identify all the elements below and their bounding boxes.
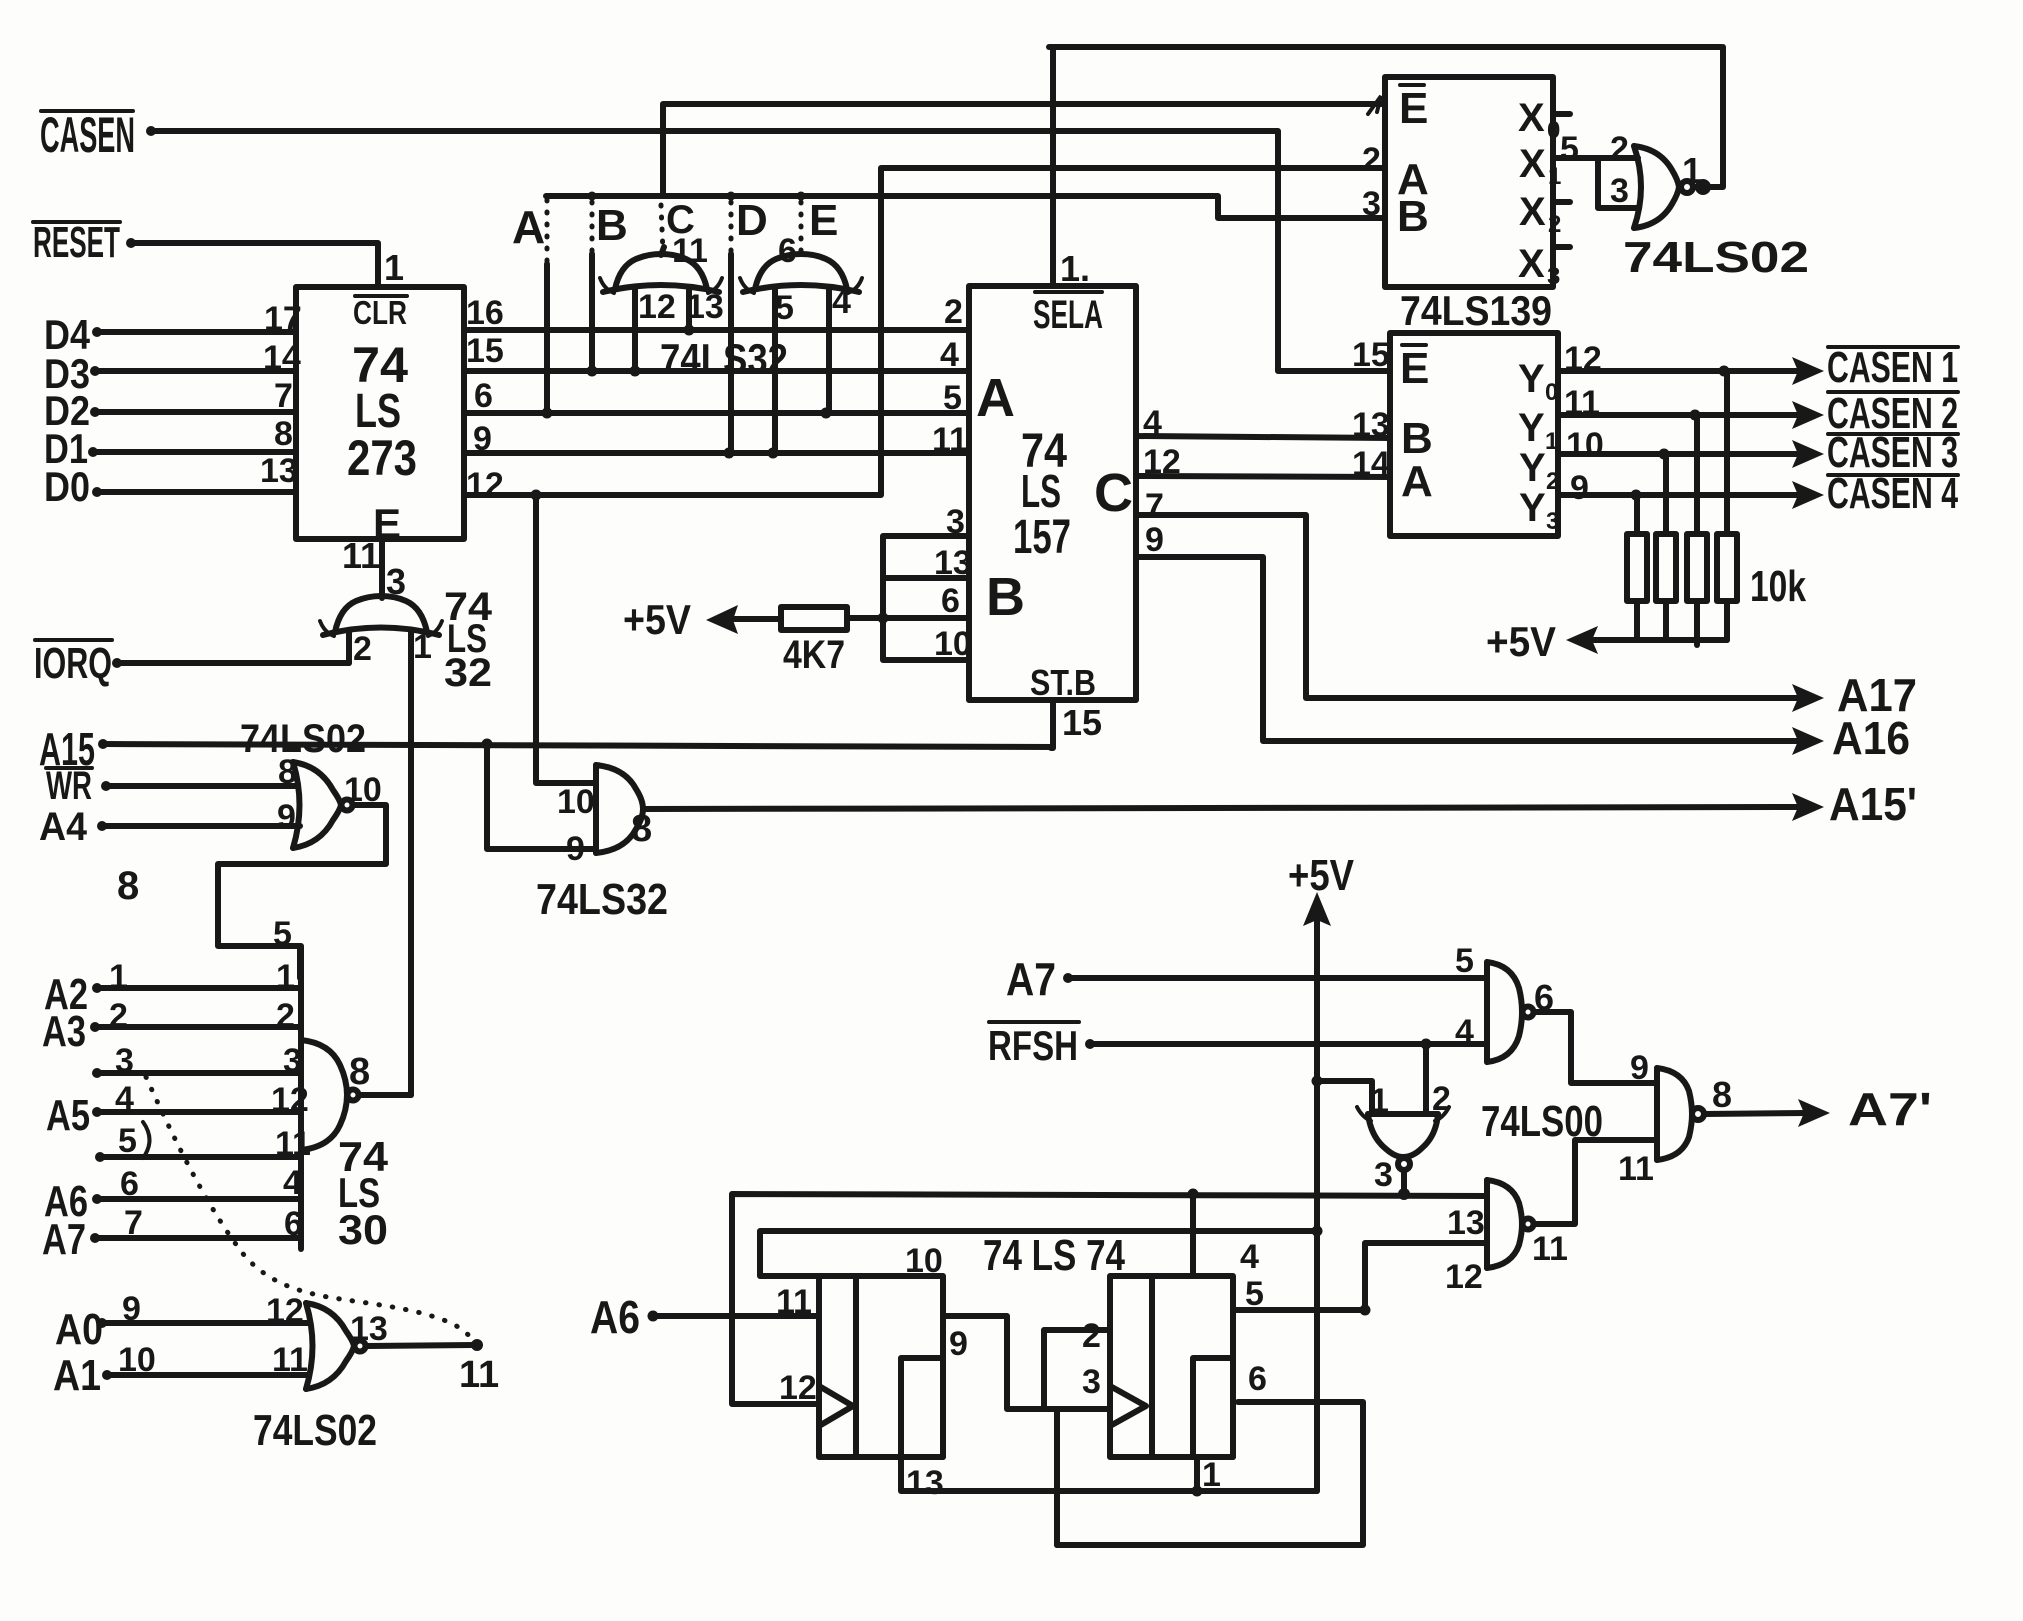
svg-text:5: 5 bbox=[273, 915, 292, 953]
svg-text:32: 32 bbox=[444, 651, 492, 695]
svg-text:8: 8 bbox=[631, 808, 652, 850]
svg-text:14: 14 bbox=[1352, 445, 1390, 483]
svg-text:Y: Y bbox=[1519, 446, 1546, 490]
flip-flop 74LS74 first bbox=[819, 1276, 943, 1457]
svg-text:5: 5 bbox=[943, 379, 962, 417]
wire Q 9 to 74LS157 pin 11 bbox=[464, 420, 969, 459]
svg-text:3: 3 bbox=[283, 1042, 302, 1080]
svg-text:13: 13 bbox=[260, 452, 298, 490]
wire 74LS157 pin12 out to 74LS139 A bbox=[1136, 443, 1390, 483]
wire D0 pin 13 bbox=[92, 452, 298, 497]
svg-text:CASEN 4: CASEN 4 bbox=[1827, 469, 1958, 518]
svg-text:E: E bbox=[809, 196, 838, 245]
mux 74LS157 bbox=[969, 286, 1136, 703]
svg-text:A: A bbox=[1401, 457, 1433, 506]
svg-text:6: 6 bbox=[1248, 1360, 1267, 1398]
output arrow A17 bbox=[1792, 669, 1917, 721]
svg-text:4: 4 bbox=[940, 336, 959, 374]
svg-text:IORQ: IORQ bbox=[34, 639, 112, 688]
svg-text:B: B bbox=[986, 567, 1025, 627]
svg-text:2: 2 bbox=[1432, 1080, 1451, 1118]
svg-text:A1: A1 bbox=[53, 1351, 101, 1400]
register 74LS273 bbox=[296, 287, 464, 547]
svg-text:RESET: RESET bbox=[33, 218, 120, 267]
svg-text:3: 3 bbox=[115, 1042, 134, 1080]
or-gate 74LS32 pins 10,9 out 8 bbox=[487, 495, 652, 868]
svg-text:12: 12 bbox=[638, 288, 676, 326]
wire ff2 Q5 to nand pin 12 bbox=[1233, 1243, 1487, 1316]
svg-text:9: 9 bbox=[1630, 1049, 1649, 1087]
or-gate 74LS32 pins 5,4 out 6 bbox=[740, 232, 862, 453]
svg-text:+5V: +5V bbox=[623, 596, 691, 643]
wire SELA pin 1 from top bus bbox=[1049, 47, 1721, 289]
svg-text:6: 6 bbox=[941, 582, 960, 620]
svg-text:10: 10 bbox=[118, 1341, 156, 1379]
svg-text:A7': A7' bbox=[1848, 1083, 1932, 1135]
wire Y2 to CASEN3 bbox=[1558, 426, 1824, 468]
svg-text:4: 4 bbox=[1455, 1013, 1474, 1051]
svg-text:11: 11 bbox=[272, 1341, 308, 1379]
wire A7 pin 6 bbox=[90, 1204, 303, 1243]
svg-text:11: 11 bbox=[459, 1354, 499, 1396]
label 74 LS 32 bbox=[444, 585, 493, 695]
nor-gate 74LS02 pins 8,9 out 10 bbox=[277, 753, 382, 848]
wire preset pin 10 bbox=[760, 1226, 1323, 1281]
svg-text:10: 10 bbox=[557, 783, 595, 821]
svg-text:15: 15 bbox=[1352, 336, 1390, 374]
wire Y1 to CASEN2 bbox=[1558, 384, 1824, 429]
wire 74LS157 pin7 to A17 bbox=[1136, 487, 1806, 698]
wire ff1 Q9 zigzag to ff2 bbox=[943, 1316, 1110, 1545]
nand-gate 74LS00 pins 1,2 out 3 pointing down bbox=[1312, 1044, 1451, 1200]
svg-text:WR: WR bbox=[46, 764, 92, 808]
svg-text:2: 2 bbox=[1546, 468, 1559, 495]
svg-text:13: 13 bbox=[1447, 1204, 1485, 1242]
svg-text:13: 13 bbox=[350, 1310, 388, 1348]
wire pin 11 bbox=[95, 1122, 311, 1163]
svg-text:8: 8 bbox=[349, 1051, 370, 1093]
wire Q 16 to 74LS157 pin 2 bbox=[464, 293, 969, 332]
svg-text:3: 3 bbox=[946, 503, 965, 541]
svg-text:X: X bbox=[1518, 96, 1545, 140]
svg-text:74LS139: 74LS139 bbox=[1400, 287, 1552, 334]
net label CASEN2 bbox=[1827, 389, 1958, 438]
svg-text:5: 5 bbox=[1560, 130, 1579, 168]
svg-text:3: 3 bbox=[1362, 185, 1381, 223]
wire D2 pin 7 bbox=[90, 377, 296, 417]
svg-text:3: 3 bbox=[1610, 172, 1629, 210]
svg-text:1: 1 bbox=[1682, 150, 1702, 191]
wire IORQ to gate pin 2 bbox=[112, 658, 349, 668]
net label RESET bbox=[33, 218, 120, 267]
svg-text:12: 12 bbox=[271, 1081, 309, 1119]
svg-text:0: 0 bbox=[1545, 379, 1558, 406]
pin arrow tick E bbox=[1368, 96, 1381, 114]
svg-text:157: 157 bbox=[1013, 511, 1071, 564]
svg-text:1.: 1. bbox=[1060, 248, 1090, 289]
nor-gate 74LS02 pins 12,11 out 13 bbox=[306, 1303, 388, 1389]
svg-text:3: 3 bbox=[1374, 1156, 1393, 1194]
wire Q 12 bbox=[464, 168, 1385, 504]
svg-text:2: 2 bbox=[944, 293, 963, 331]
wire WR to nor pin 8 bbox=[101, 781, 298, 791]
svg-text:D0: D0 bbox=[44, 463, 90, 510]
svg-text:A7: A7 bbox=[1006, 953, 1056, 1005]
decoder 74LS139 first half bbox=[1385, 77, 1570, 290]
svg-text:1: 1 bbox=[276, 958, 295, 996]
svg-text:5: 5 bbox=[118, 1122, 137, 1160]
svg-text:11: 11 bbox=[1618, 1150, 1654, 1188]
svg-text:A0: A0 bbox=[55, 1305, 103, 1354]
wire ff1 pin13 to ff2 pin1 and +5V bbox=[901, 1456, 1317, 1502]
svg-text:C: C bbox=[1094, 463, 1133, 523]
svg-text:ST.B: ST.B bbox=[1030, 662, 1096, 703]
node B leader bbox=[588, 192, 597, 372]
resistor 4K7 bbox=[781, 607, 889, 677]
svg-text:11: 11 bbox=[1532, 1230, 1568, 1268]
wire 74LS30 out up to or-gate pin 1 bbox=[359, 1092, 411, 1098]
svg-text:1: 1 bbox=[384, 247, 404, 288]
svg-text:A16: A16 bbox=[1832, 712, 1910, 764]
svg-text:CASEN: CASEN bbox=[40, 107, 135, 163]
wire Q 15 to 74LS157 pin 4 bbox=[464, 332, 969, 377]
svg-text:1: 1 bbox=[413, 628, 432, 666]
svg-text:4: 4 bbox=[283, 1164, 302, 1202]
node E leader bbox=[797, 192, 806, 253]
strobe pin 15 wire bbox=[1051, 700, 1102, 748]
wire A1 pin 11 bbox=[102, 1341, 309, 1380]
or-gate 74LS32 pins 12,13 out 11 bbox=[600, 232, 724, 371]
svg-text:11: 11 bbox=[275, 1125, 311, 1163]
svg-text:9: 9 bbox=[1570, 469, 1589, 507]
svg-text:CLR: CLR bbox=[353, 294, 407, 331]
svg-text:3: 3 bbox=[1082, 1363, 1101, 1401]
svg-text:5: 5 bbox=[775, 289, 794, 327]
svg-text:2: 2 bbox=[1548, 211, 1561, 238]
svg-text:3: 3 bbox=[1546, 508, 1559, 535]
svg-text:14: 14 bbox=[263, 339, 301, 377]
wire Y0 to CASEN1 bbox=[1558, 340, 1824, 385]
net label CASEN3 bbox=[1827, 428, 1958, 477]
svg-text:D: D bbox=[736, 196, 768, 245]
svg-text:4: 4 bbox=[1240, 1238, 1259, 1276]
svg-text:1: 1 bbox=[1370, 1082, 1389, 1120]
svg-text:74LS02: 74LS02 bbox=[253, 1406, 377, 1455]
wire out to A7' bbox=[1704, 1083, 1932, 1135]
net label IORQ bbox=[34, 639, 112, 688]
svg-text:X: X bbox=[1518, 242, 1545, 286]
svg-text:X: X bbox=[1519, 190, 1546, 234]
svg-text:16: 16 bbox=[466, 294, 504, 332]
node bus wire y196 to 74LS139 B bbox=[546, 196, 1385, 218]
svg-text:7: 7 bbox=[1145, 487, 1164, 525]
svg-text:0: 0 bbox=[1547, 117, 1560, 144]
svg-text:1: 1 bbox=[1202, 1456, 1221, 1494]
svg-text:11: 11 bbox=[776, 1283, 812, 1321]
power +5V bottom bbox=[1288, 851, 1355, 1491]
flip-flop 74LS74 second bbox=[1110, 1276, 1233, 1457]
power +5V pullups bbox=[1486, 618, 1727, 665]
svg-text:8: 8 bbox=[278, 753, 297, 791]
label 74 LS 30 bbox=[338, 1133, 389, 1253]
wire pin 3 bbox=[92, 1042, 302, 1080]
svg-text:15: 15 bbox=[466, 332, 504, 370]
net label CASEN bbox=[40, 107, 135, 163]
svg-text:+5V: +5V bbox=[1288, 851, 1355, 900]
wire Y3 to CASEN4 bbox=[1558, 469, 1824, 509]
wire CASEN to 74LS139 E15 bbox=[146, 126, 1390, 371]
svg-text:10k: 10k bbox=[1750, 562, 1806, 611]
wire preset pin 4 bbox=[1188, 1189, 1260, 1277]
wire A6 to ff1 pin 11 bbox=[648, 1283, 820, 1322]
output arrow A16 bbox=[1792, 712, 1910, 764]
svg-text:12: 12 bbox=[779, 1369, 817, 1407]
svg-text:B: B bbox=[596, 201, 628, 250]
decoder 74LS139 second half bbox=[1390, 333, 1559, 536]
wire D3 pin 14 bbox=[90, 339, 301, 377]
svg-text:8: 8 bbox=[117, 864, 139, 908]
wire D4 pin 17 bbox=[92, 300, 302, 338]
svg-text:11: 11 bbox=[672, 232, 708, 270]
nand-gate 74LS00 pins 13,12 out 11 bbox=[1445, 1180, 1568, 1296]
net label CASEN4 bbox=[1827, 469, 1958, 518]
svg-text:12: 12 bbox=[466, 466, 504, 504]
svg-text:A: A bbox=[976, 368, 1015, 428]
svg-text:74LS32: 74LS32 bbox=[536, 875, 668, 924]
nand-gate 74LS00 pins 5,4 out 6 bbox=[1487, 962, 1554, 1062]
node C leader bbox=[661, 205, 663, 252]
node A leader bbox=[545, 200, 550, 413]
svg-text:A3: A3 bbox=[42, 1007, 86, 1056]
nand 74LS30 input bar bbox=[298, 946, 304, 1249]
svg-text:CASEN 1: CASEN 1 bbox=[1827, 343, 1958, 392]
svg-text:A7: A7 bbox=[42, 1215, 86, 1264]
or-gate 74LS32 pins 1,2 out 3 bbox=[320, 596, 442, 1095]
wire nand6 to nand pin 9 bbox=[1534, 1012, 1657, 1087]
svg-text:B: B bbox=[1397, 192, 1429, 241]
wire nand11 to nand pin 10 bbox=[1534, 1140, 1657, 1224]
svg-text:4K7: 4K7 bbox=[783, 633, 845, 677]
svg-text:LS: LS bbox=[1021, 465, 1061, 517]
svg-text:A5: A5 bbox=[46, 1091, 90, 1140]
wire out to A15' bbox=[643, 807, 1806, 809]
nand-gate 74LS30 body out 8 bbox=[301, 1040, 370, 1150]
svg-text:11: 11 bbox=[932, 421, 968, 459]
svg-text:10: 10 bbox=[905, 1242, 943, 1280]
wire Q 6 to 74LS157 pin 5 bbox=[464, 377, 969, 419]
wire D1 pin 8 bbox=[88, 415, 296, 457]
svg-text:5: 5 bbox=[1455, 942, 1474, 980]
svg-text:2: 2 bbox=[1610, 130, 1629, 168]
svg-text:10: 10 bbox=[934, 625, 972, 663]
svg-text:74LS02: 74LS02 bbox=[240, 717, 366, 761]
svg-text:1: 1 bbox=[109, 958, 128, 996]
net label WR bbox=[46, 764, 92, 808]
wire to 74LS139 E pin bbox=[663, 104, 1385, 196]
svg-text:3: 3 bbox=[1547, 263, 1560, 290]
svg-text:273: 273 bbox=[347, 430, 417, 486]
wire A2 pin 1 bbox=[92, 958, 301, 996]
wire A4 to nor pin 9 bbox=[97, 821, 300, 831]
svg-text:6: 6 bbox=[120, 1165, 139, 1203]
wire RFSH to nand pin 4 bbox=[1085, 1013, 1487, 1051]
wire A3 pin 2 bbox=[90, 997, 301, 1035]
svg-text:74LS02: 74LS02 bbox=[1623, 233, 1809, 282]
svg-text:2: 2 bbox=[109, 997, 128, 1035]
svg-text:6: 6 bbox=[778, 232, 797, 270]
dotted annotation arc bbox=[146, 1077, 477, 1345]
wire 74LS157 pin4 out to 74LS139 B bbox=[1136, 404, 1390, 444]
resistor R1 10k bbox=[1627, 495, 1647, 640]
svg-text:8: 8 bbox=[274, 415, 293, 453]
svg-text:13: 13 bbox=[934, 544, 972, 582]
svg-text:74 LS 74: 74 LS 74 bbox=[983, 1231, 1125, 1280]
net label RFSH bbox=[988, 1022, 1079, 1069]
wire 74LS157 pin9 to A16 bbox=[1136, 521, 1806, 741]
svg-text:A6: A6 bbox=[590, 1291, 640, 1343]
svg-text:A: A bbox=[512, 201, 545, 253]
wire A15 to STB bbox=[98, 739, 1053, 750]
svg-text:11: 11 bbox=[342, 535, 380, 576]
svg-text:9: 9 bbox=[122, 1290, 141, 1328]
svg-text:A4: A4 bbox=[39, 805, 88, 849]
svg-text:6: 6 bbox=[284, 1205, 303, 1243]
wire A7 to nand pin 5 bbox=[1063, 942, 1487, 983]
resistor R4 10k bbox=[1717, 371, 1737, 640]
svg-text:+5V: +5V bbox=[1486, 618, 1556, 665]
power +5V left arrow bbox=[623, 596, 781, 643]
wire A6 pin 4 bbox=[92, 1164, 302, 1204]
svg-text:E: E bbox=[1400, 344, 1429, 393]
resistor R3 10k bbox=[1687, 415, 1707, 645]
svg-text:2: 2 bbox=[1082, 1317, 1101, 1355]
wire nor out to node 11 bbox=[366, 1339, 499, 1396]
svg-text:12: 12 bbox=[266, 1292, 304, 1330]
svg-text:E: E bbox=[1399, 84, 1428, 133]
svg-text:2: 2 bbox=[353, 630, 372, 668]
resistor R2 10k bbox=[1656, 454, 1676, 640]
svg-text:9: 9 bbox=[566, 830, 585, 868]
nor-gate 74LS02 pins 2,3 out 1 bbox=[1553, 47, 1723, 228]
svg-text:7: 7 bbox=[274, 377, 293, 415]
svg-text:9: 9 bbox=[277, 798, 296, 836]
svg-text:X: X bbox=[1519, 142, 1546, 186]
svg-text:4: 4 bbox=[115, 1080, 134, 1118]
svg-text:1: 1 bbox=[1545, 428, 1558, 455]
svg-text:4: 4 bbox=[832, 283, 851, 321]
svg-text:30: 30 bbox=[338, 1206, 388, 1253]
wire ff2 Q6 feedback bbox=[1057, 1360, 1363, 1545]
svg-text:8: 8 bbox=[1712, 1074, 1732, 1115]
svg-text:9: 9 bbox=[1145, 521, 1164, 559]
wire nand3 out bus to ff section bbox=[732, 1194, 1487, 1404]
wire A5 pin 12 bbox=[92, 1080, 309, 1119]
svg-text:13: 13 bbox=[906, 1464, 944, 1502]
output arrow A15' bbox=[1792, 778, 1917, 830]
svg-text:13: 13 bbox=[1352, 406, 1390, 444]
svg-text:RFSH: RFSH bbox=[988, 1022, 1078, 1069]
svg-text:Y: Y bbox=[1518, 406, 1545, 450]
net label CASEN1 bbox=[1827, 343, 1958, 392]
svg-text:A15': A15' bbox=[1829, 778, 1917, 830]
svg-text:SELA: SELA bbox=[1033, 293, 1103, 337]
svg-text:17: 17 bbox=[264, 300, 302, 338]
nand-gate 74LS00 pins 9,10 out 8 bbox=[1657, 1068, 1732, 1160]
svg-text:B: B bbox=[1401, 414, 1433, 463]
svg-text:13: 13 bbox=[686, 288, 724, 326]
node D leader bbox=[727, 192, 736, 454]
wire E pin 11 to gate bbox=[342, 535, 406, 602]
svg-text:6: 6 bbox=[474, 377, 493, 415]
svg-text:10: 10 bbox=[1566, 426, 1604, 464]
svg-text:Y: Y bbox=[1519, 486, 1546, 530]
select bus B pins 3,13,6,10 bbox=[883, 503, 972, 663]
wire nor out to 74LS30 pin 5 bbox=[218, 805, 386, 978]
svg-text:Y: Y bbox=[1518, 357, 1545, 401]
svg-text:9: 9 bbox=[949, 1325, 968, 1363]
svg-text:7: 7 bbox=[124, 1204, 143, 1242]
svg-text:2: 2 bbox=[276, 997, 295, 1035]
svg-text:15: 15 bbox=[1062, 702, 1102, 743]
svg-text:2: 2 bbox=[1362, 141, 1381, 179]
svg-text:74LS32: 74LS32 bbox=[660, 335, 788, 382]
wire A0 pin 12 bbox=[97, 1290, 309, 1330]
wire RESET to CLR pin 1 bbox=[126, 238, 378, 287]
svg-text:12: 12 bbox=[1445, 1258, 1483, 1296]
